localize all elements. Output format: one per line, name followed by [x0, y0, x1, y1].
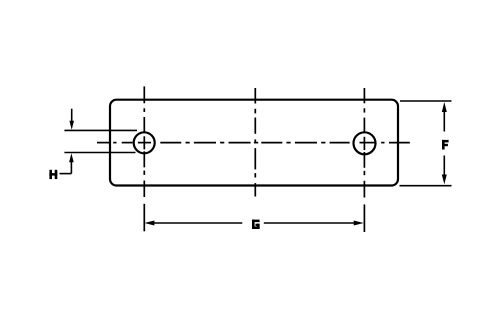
- vertical center line hole 2: [363, 88, 365, 232]
- G dimension line right with right arrow: [264, 221, 364, 226]
- label G: [252, 220, 260, 229]
- vertical center line hole 1: [143, 86, 145, 231]
- H extension line bottom: [64, 152, 135, 154]
- F extension line bottom: [400, 185, 452, 187]
- H extension line top: [64, 129, 137, 131]
- G dimension line left with left arrow: [144, 221, 242, 226]
- H arrow down: [69, 109, 74, 130]
- hole 1: [134, 132, 155, 153]
- vertical center line at plate middle: [254, 88, 256, 197]
- label H: [49, 170, 57, 179]
- F extension line top: [400, 100, 452, 102]
- plate outline: [110, 100, 398, 186]
- H arrow up with leader: [60, 153, 74, 173]
- F dimension line upper with up arrow: [442, 102, 447, 132]
- F dimension line lower with down arrow: [442, 156, 447, 185]
- label F: [442, 140, 449, 150]
- hole 2: [354, 132, 376, 154]
- horizontal center line: [97, 142, 410, 144]
